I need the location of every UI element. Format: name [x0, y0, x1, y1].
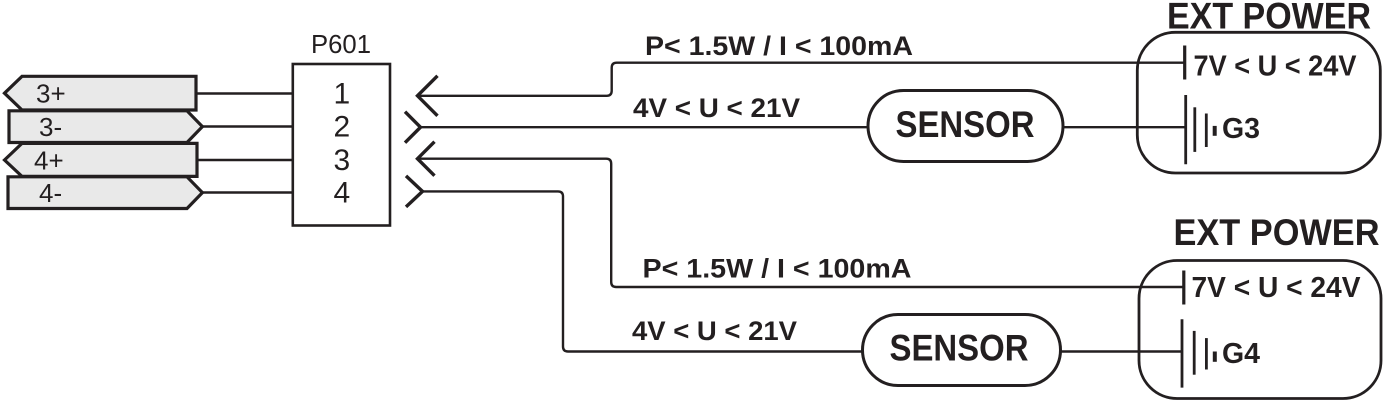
flag 3-	[9, 111, 202, 143]
wire SENSOR 2 to G4	[1061, 350, 1183, 352]
svg-text:4+: 4+	[34, 145, 64, 175]
svg-text:EXT POWER: EXT POWER	[1167, 0, 1371, 37]
svg-text:4V < U < 21V: 4V < U < 21V	[632, 316, 797, 346]
svg-text:P< 1.5W / I < 100mA: P< 1.5W / I < 100mA	[645, 31, 913, 61]
connector fork pin 2	[405, 112, 421, 143]
svg-text:SENSOR: SENSOR	[896, 104, 1035, 145]
svg-text:4-: 4-	[39, 178, 62, 208]
svg-text:G3: G3	[1222, 113, 1260, 145]
svg-text:4: 4	[334, 176, 351, 209]
svg-text:SENSOR: SENSOR	[890, 328, 1029, 369]
flag 3+	[5, 76, 197, 110]
svg-text:P< 1.5W / I < 100mA: P< 1.5W / I < 100mA	[643, 253, 912, 283]
wire flag 4- to pin 4	[202, 191, 293, 193]
wire pin 3 to EXT POWER G4 supply	[418, 159, 1184, 287]
wire flag 3- to pin 2	[202, 125, 293, 127]
connector arrow pin 3	[418, 142, 435, 176]
flag 4+	[5, 143, 198, 176]
svg-text:3+: 3+	[36, 79, 66, 109]
svg-text:G4: G4	[1222, 338, 1260, 370]
battery G3	[1186, 95, 1260, 164]
wire SENSOR 1 to G3	[1063, 126, 1186, 128]
connector fork pin 4	[406, 176, 423, 207]
connector arrow pin 1	[418, 76, 438, 116]
ext power box 2	[1139, 261, 1381, 399]
supply plate 2	[1182, 271, 1185, 305]
svg-text:1: 1	[334, 77, 351, 110]
svg-text:4V < U < 21V: 4V < U < 21V	[633, 93, 800, 123]
supply plate 1	[1183, 46, 1186, 80]
svg-text:P601: P601	[311, 29, 371, 59]
svg-text:7V < U < 24V: 7V < U < 24V	[1192, 272, 1362, 304]
wire pin 2 to SENSOR 1	[421, 126, 869, 128]
svg-text:2: 2	[334, 110, 351, 143]
svg-text:7V < U < 24V: 7V < U < 24V	[1194, 51, 1358, 83]
wire flag 4+ to pin 3	[197, 159, 293, 161]
wire pin 1 to EXT POWER G3 supply	[418, 63, 1185, 96]
wire pin 4 to SENSOR 2	[423, 191, 863, 351]
flag 4-	[8, 177, 202, 209]
battery G4	[1182, 319, 1260, 387]
svg-text:3: 3	[334, 144, 351, 177]
svg-text:EXT POWER: EXT POWER	[1174, 212, 1380, 253]
wire flag 3+ to pin 1	[196, 92, 293, 94]
connector P601	[293, 29, 390, 226]
sensor 2	[863, 315, 1061, 386]
sensor 1	[868, 91, 1063, 162]
svg-text:3-: 3-	[39, 112, 62, 142]
ext power box 1	[1137, 32, 1380, 173]
